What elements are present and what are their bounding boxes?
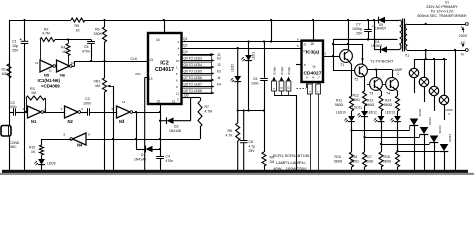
svg-text:CD4017: CD4017 — [155, 67, 174, 73]
svg-text:K3: K3 — [217, 70, 221, 74]
svg-text:X1: X1 — [405, 54, 409, 58]
transistor T4 — [386, 78, 399, 96]
wire IC3 pin8 stub — [296, 64, 302, 66]
wire T2 base — [333, 70, 355, 72]
resistor R4b 330K — [94, 19, 107, 62]
lamp LAMP3 — [429, 59, 438, 111]
wire Q9 TO LED8 arrow — [176, 88, 215, 95]
svg-text:C1: C1 — [12, 40, 17, 44]
svg-text:R1: R1 — [2, 68, 6, 72]
capacitor C5 — [82, 40, 95, 63]
wire D4 branch — [373, 19, 375, 50]
wire Q2 to K1 — [178, 44, 302, 51]
label LAMP1 — [393, 68, 403, 76]
wire VR1 wiper down — [113, 86, 115, 171]
svg-text:4.7M: 4.7M — [205, 110, 213, 114]
svg-text:1N4007: 1N4007 — [371, 44, 382, 48]
label notes — [273, 153, 311, 171]
photo edge strip — [0, 173, 474, 175]
label 230V AC — [459, 27, 468, 48]
svg-text:LAMP1-LAMP4=: LAMP1-LAMP4= — [276, 160, 307, 165]
capacitor C7 1000u — [352, 19, 375, 41]
svg-text:IC3(b): IC3(b) — [287, 67, 291, 75]
svg-text:J1: J1 — [304, 42, 308, 46]
wire dashed — [297, 88, 307, 90]
resistor R16 560 — [351, 137, 367, 171]
wire center tap — [332, 38, 398, 70]
svg-text:560Ω: 560Ω — [365, 160, 374, 164]
wire gate 4 — [396, 122, 439, 152]
svg-text:J3: J3 — [217, 63, 221, 67]
svg-text:R15: R15 — [335, 155, 341, 159]
wire T1 collector — [347, 19, 349, 50]
capacitor C1 — [12, 19, 28, 171]
potentiometer VR1 — [94, 61, 114, 171]
svg-text:25V: 25V — [12, 49, 19, 53]
terminal N — [407, 49, 468, 57]
IC U3 CD4027 box — [302, 41, 324, 82]
svg-text:T2: T2 — [354, 78, 358, 82]
svg-text:Q4 TO LED3: Q4 TO LED3 — [184, 57, 203, 61]
diode D5 1N4007 — [375, 17, 386, 31]
lamp LAMP1 — [409, 59, 418, 93]
resistor R8 4.7K — [226, 111, 240, 171]
diode D1 1N4148 — [134, 139, 160, 162]
svg-text:C3: C3 — [85, 97, 90, 101]
svg-text:10K: 10K — [2, 72, 9, 76]
wire N4 in node line — [86, 138, 200, 140]
svg-text:16: 16 — [156, 38, 160, 42]
svg-text:R17: R17 — [366, 155, 372, 159]
svg-text:560Ω: 560Ω — [335, 103, 344, 107]
wire Q8 TO LED7 arrow K4 — [176, 82, 221, 89]
node reset box — [307, 84, 312, 171]
inverter N1 — [23, 106, 47, 124]
svg-text:560Ω: 560Ω — [352, 98, 361, 102]
svg-text:470n: 470n — [82, 49, 90, 53]
inverter N5 — [35, 60, 56, 78]
node IC3(b) tap — [286, 67, 291, 95]
svg-text:LED9: LED9 — [47, 162, 56, 166]
wire IC3 pin1 to T1 base — [323, 52, 340, 57]
svg-text:R11: R11 — [336, 99, 342, 103]
capacitor C3 — [81, 97, 117, 116]
wire T4 base — [383, 84, 386, 86]
svg-text:K4: K4 — [217, 83, 221, 87]
resistor R14 560 — [384, 96, 400, 111]
wire gate 2 — [363, 117, 419, 138]
wire Q7 TO LED6 arrow J4 — [176, 75, 221, 82]
svg-text:N4: N4 — [77, 143, 83, 148]
svg-text:R5: R5 — [75, 24, 80, 28]
svg-text:LED2: LED2 — [231, 64, 235, 72]
svg-text:D2: D2 — [174, 125, 178, 129]
svg-text:1K: 1K — [31, 150, 36, 154]
node IC4(b) tap — [272, 67, 277, 95]
svg-text:N1: N1 — [31, 119, 37, 124]
wire lamp live bus — [414, 49, 447, 60]
IC U2 CD4017 box — [148, 33, 182, 104]
svg-text:IC3(a): IC3(a) — [306, 50, 320, 56]
svg-text:R13: R13 — [367, 99, 373, 103]
diode D4 1N4007 — [371, 40, 396, 53]
svg-text:1N4007: 1N4007 — [375, 26, 386, 30]
svg-text:4.7M: 4.7M — [42, 31, 50, 35]
wire IC2 pin16 to rail — [163, 19, 165, 33]
wire bottom mid bus — [237, 109, 266, 111]
label transformer — [417, 0, 467, 18]
triac SCR2 — [420, 117, 432, 171]
svg-text:C8: C8 — [249, 140, 253, 144]
condenser microphone MIC — [1, 126, 20, 149]
wire N1-N2 — [44, 112, 65, 114]
svg-text:560Ω: 560Ω — [334, 160, 343, 164]
label LAMP4 — [445, 108, 453, 116]
svg-text:10µ: 10µ — [12, 44, 18, 48]
svg-text:C7: C7 — [356, 23, 361, 27]
label T1-T4 — [370, 60, 393, 64]
svg-text:TO 12V-0-12V,: TO 12V-0-12V, — [430, 10, 454, 14]
wire T3 base — [367, 84, 370, 86]
svg-text:IC2: IC2 — [160, 61, 168, 67]
svg-text:1K: 1K — [76, 29, 81, 33]
svg-text:Q5 TO LED4: Q5 TO LED4 — [184, 63, 203, 67]
svg-text:100n: 100n — [251, 82, 259, 86]
wire N4 out — [42, 139, 72, 141]
svg-text:R12: R12 — [353, 94, 359, 98]
svg-text:470n: 470n — [166, 159, 174, 163]
svg-text:11: 11 — [176, 92, 179, 96]
svg-text:Q3: Q3 — [183, 50, 188, 54]
wire gate 3 — [380, 122, 430, 145]
svg-text:N5: N5 — [44, 73, 50, 78]
svg-text:1N4148: 1N4148 — [169, 129, 181, 133]
inverter N2 — [61, 106, 84, 124]
svg-text:14: 14 — [122, 100, 126, 104]
capacitor C2 — [9, 101, 28, 116]
resistor R3 feedback — [25, 87, 46, 113]
svg-text:CLK: CLK — [131, 57, 138, 61]
resistor R13 560 — [366, 96, 383, 111]
svg-text:100n: 100n — [9, 105, 17, 109]
LED9 — [34, 155, 55, 171]
svg-text:560Ω: 560Ω — [384, 103, 393, 107]
transformer X1 — [396, 19, 409, 58]
capacitor C4 — [156, 155, 173, 171]
LED LED12 — [367, 111, 384, 123]
wire IC2 pin13 — [136, 72, 149, 171]
svg-text:16: 16 — [310, 42, 314, 46]
svg-text:1M: 1M — [62, 50, 67, 54]
svg-text:R6: R6 — [95, 28, 100, 32]
wire Q4 TO LED3 arrow K2 — [176, 56, 221, 63]
wire T4 emitter — [394, 88, 397, 96]
wire T3 T4 collectors — [367, 68, 392, 78]
wire T2 emitter — [363, 75, 364, 91]
svg-text:1N4148: 1N4148 — [134, 158, 146, 162]
svg-text:13: 13 — [35, 61, 39, 65]
svg-text:LED12: LED12 — [367, 111, 377, 115]
svg-text:13: 13 — [149, 77, 153, 81]
resistor R7 4.7M — [191, 98, 213, 140]
wire ff taps join — [274, 95, 297, 171]
lamp LAMP4 — [439, 59, 448, 120]
svg-text:MIC: MIC — [11, 145, 18, 149]
svg-text:SCR1: SCR1 — [418, 108, 422, 116]
svg-text:11: 11 — [280, 86, 284, 89]
node IC4(a) tap — [279, 67, 284, 95]
svg-text:K1: K1 — [304, 49, 308, 53]
svg-text:D1: D1 — [141, 153, 145, 157]
svg-text:X1: X1 — [445, 0, 449, 4]
svg-text:R7: R7 — [205, 105, 209, 109]
resistor R5 1K in rail — [71, 18, 85, 33]
inverter N6 — [56, 60, 75, 78]
LED LED11 — [353, 106, 368, 118]
svg-text:1000µ: 1000µ — [352, 27, 362, 31]
wire gate 1 — [350, 122, 409, 132]
triac SCR4 — [440, 134, 452, 171]
svg-text:10: 10 — [176, 59, 180, 63]
svg-text:VR1: VR1 — [94, 80, 101, 84]
svg-text:SCR3: SCR3 — [438, 125, 442, 133]
svg-text:R10: R10 — [29, 146, 35, 150]
svg-text:14: 14 — [150, 58, 154, 62]
svg-text:230V: 230V — [459, 34, 468, 38]
wire IC3 bottom pins — [307, 82, 319, 88]
resistor R11 560 — [335, 96, 354, 111]
wire T2 collector — [333, 43, 364, 65]
svg-text:T4: T4 — [386, 92, 390, 96]
svg-text:LED10: LED10 — [336, 111, 346, 115]
triac SCR3 — [430, 125, 442, 170]
svg-text:1M: 1M — [95, 84, 100, 88]
resistor R4 1M — [61, 38, 70, 64]
LED LED10 — [336, 111, 355, 123]
wire T3 emitter — [378, 88, 381, 96]
svg-text:Q1: Q1 — [183, 37, 188, 41]
svg-text:Q8 TO LED7: Q8 TO LED7 — [184, 83, 203, 87]
svg-text:13: 13 — [287, 86, 291, 90]
inverter N3 — [112, 100, 133, 124]
transistor T1 — [340, 50, 353, 67]
wire T1 emitter — [348, 61, 351, 97]
svg-text:C6: C6 — [253, 77, 257, 81]
wire Q1 to J1 — [178, 37, 302, 44]
LED1 — [241, 42, 255, 111]
capacitor C6 — [251, 40, 268, 110]
wire Q3 arrow J2 — [178, 50, 221, 57]
svg-text:SCR4: SCR4 — [448, 134, 452, 142]
wire Q5 TO LED4 arrow J3 — [176, 62, 221, 69]
wire Q6 TO LED5 arrow K3 — [176, 69, 221, 76]
wire N bus down — [455, 50, 457, 171]
wire rail tap — [270, 19, 272, 43]
wire left border supply — [9, 20, 11, 171]
resistor R2 — [40, 28, 55, 42]
svg-text:15: 15 — [157, 100, 161, 104]
resistor R9 1M — [262, 111, 274, 171]
svg-text:LED13: LED13 — [385, 111, 395, 115]
svg-text:Q2: Q2 — [183, 44, 188, 48]
svg-text:25V: 25V — [356, 32, 363, 36]
svg-text:N2: N2 — [68, 119, 74, 124]
svg-text:N6: N6 — [60, 73, 66, 78]
transistor T2 — [354, 64, 367, 81]
resistor R18 560 — [383, 151, 400, 171]
terminal L — [407, 23, 468, 29]
svg-text:T1-T4=BC547: T1-T4=BC547 — [370, 60, 393, 64]
svg-text:1M: 1M — [31, 91, 36, 95]
svg-text:Q7 TO LED6: Q7 TO LED6 — [184, 76, 203, 80]
svg-text:Q0: Q0 — [184, 93, 189, 97]
triac SCR1 — [410, 108, 422, 170]
svg-text:SCR2: SCR2 — [428, 117, 432, 125]
wire N6 out to CLK — [72, 57, 149, 67]
resistor R15 560 — [334, 131, 354, 171]
svg-text:25V: 25V — [249, 149, 256, 153]
svg-text:Q6 TO LED5: Q6 TO LED5 — [184, 70, 203, 74]
resistor R17 560 — [365, 144, 383, 171]
svg-text:560Ω: 560Ω — [351, 160, 360, 164]
svg-text:J4: J4 — [217, 76, 221, 80]
svg-text:LED1: LED1 — [252, 52, 256, 60]
svg-text:500mA SEC. TRANSFORMER: 500mA SEC. TRANSFORMER — [417, 14, 467, 18]
LED2 — [231, 48, 242, 111]
inverter N4 — [64, 133, 91, 148]
diode D2 1N4148 — [160, 117, 191, 133]
capacitor C8 — [239, 111, 255, 171]
svg-text:N: N — [461, 53, 464, 57]
svg-text:230V AC PRIMARY: 230V AC PRIMARY — [426, 5, 458, 9]
lamp LAMP2 — [419, 59, 428, 102]
svg-text:11: 11 — [172, 100, 176, 104]
svg-text:R8: R8 — [228, 129, 232, 133]
svg-text:=CD4069: =CD4069 — [41, 83, 60, 88]
wire N3 out — [133, 111, 162, 113]
svg-text:IC4(a): IC4(a) — [280, 67, 284, 75]
wire top +12V rail — [9, 20, 399, 22]
svg-text:11: 11 — [56, 69, 59, 73]
svg-text:R18: R18 — [384, 155, 390, 159]
svg-text:PIN: PIN — [136, 72, 141, 76]
svg-text:330K: 330K — [94, 32, 103, 36]
label IC1 — [38, 78, 61, 88]
transistor T3 — [369, 78, 382, 96]
resistor R1 — [2, 64, 12, 78]
svg-text:C4: C4 — [166, 155, 170, 159]
node reset box — [316, 84, 321, 171]
svg-text:K2: K2 — [217, 57, 221, 61]
svg-text:40W....100W/230V: 40W....100W/230V — [273, 166, 307, 171]
svg-text:T3: T3 — [369, 92, 373, 96]
svg-text:IC1(N1-N6): IC1(N1-N6) — [38, 78, 61, 83]
svg-text:4.7K: 4.7K — [226, 134, 234, 138]
svg-text:R14: R14 — [385, 99, 391, 103]
wire bottom ground bus bar — [2, 170, 468, 174]
svg-text:IC4(b): IC4(b) — [272, 67, 276, 75]
wire R2 feedback — [40, 40, 91, 62]
LED LED13 — [385, 111, 401, 123]
svg-text:LED11: LED11 — [353, 106, 363, 110]
svg-text:R16: R16 — [351, 155, 357, 159]
wire IC3 pin16 to rail — [312, 19, 314, 41]
svg-text:4.7µ: 4.7µ — [249, 145, 256, 149]
svg-text:SCR1-SCR4=BT136: SCR1-SCR4=BT136 — [273, 153, 311, 158]
wire N3out down — [136, 112, 138, 139]
svg-text:1M: 1M — [270, 160, 275, 164]
svg-text:100n: 100n — [83, 102, 91, 106]
svg-text:560Ω: 560Ω — [366, 103, 375, 107]
svg-text:12: 12 — [49, 69, 53, 73]
resistor R12 560 — [352, 91, 367, 106]
wire Q0 to D2 — [177, 93, 191, 120]
wire pin15 col — [159, 104, 161, 156]
resistor R10 1K — [29, 139, 44, 155]
svg-text:+: + — [239, 137, 241, 141]
svg-text:T1: T1 — [340, 63, 344, 67]
svg-text:1: 1 — [397, 72, 399, 76]
svg-text:560Ω: 560Ω — [383, 160, 392, 164]
